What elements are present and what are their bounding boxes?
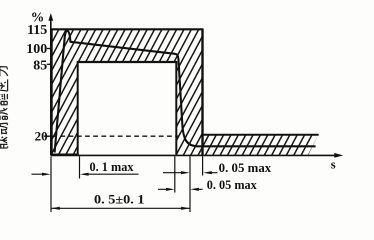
svg-text:0. 1 max: 0. 1 max — [90, 160, 135, 174]
band outline: left column bottom edge — [51, 153, 79, 155]
dimension 0.05 max lower: line — [158, 188, 203, 190]
svg-text:100: 100 — [26, 42, 47, 57]
tick 100% — [47, 48, 51, 50]
x-axis — [51, 154, 336, 156]
dimension 0.5±0.1: line — [51, 207, 190, 209]
extension line at fall start — [174, 156, 176, 192]
x-axis arrowhead — [334, 153, 343, 158]
hatched tolerance band: bottom tail — [203, 134, 319, 155]
tick 20% — [46, 135, 51, 137]
extension line at rise start — [50, 157, 52, 213]
svg-text:85: 85 — [33, 58, 47, 73]
band outline: tail top edge (20% level) — [203, 134, 319, 136]
svg-text:115: 115 — [27, 23, 47, 38]
band outline: inner right edge — [175, 62, 177, 155]
band outline: outer right edge — [201, 29, 203, 156]
char ya — [0, 79, 8, 91]
char shi — [0, 108, 8, 120]
svg-text:0. 05 max: 0. 05 max — [219, 161, 272, 175]
hatched tolerance band: pulse ring — [52, 29, 203, 156]
extension line at rise end — [79, 156, 81, 178]
y-axis — [50, 19, 52, 156]
dimension 0.05 max upper: arrows — [181, 171, 190, 174]
dimension 0.05 max upper: line — [163, 172, 218, 174]
y-axis arrowhead — [48, 13, 53, 21]
svg-text:s: s — [331, 157, 336, 171]
svg-text:0. 5±0. 1: 0. 5±0. 1 — [94, 192, 145, 207]
dimension 0.5±0.1: arrows — [51, 207, 60, 210]
dashed 20% reference line — [44, 135, 179, 137]
char li — [0, 66, 8, 76]
band outline: top edge (115% level) — [51, 28, 204, 30]
band outline: outer left edge — [51, 29, 53, 155]
char yan — [0, 94, 7, 106]
extension line at fall mid — [189, 156, 191, 212]
band outline: inner top edge (85% level) — [77, 61, 178, 63]
nominal pressure curve — [55, 31, 316, 153]
dimension 0.1 max: arrows — [42, 173, 51, 176]
tick 85% — [47, 63, 51, 65]
dimension 0.05 max lower: arrows — [166, 188, 175, 191]
char dong — [0, 123, 8, 134]
svg-text:%: % — [31, 9, 45, 24]
svg-text:20: 20 — [35, 129, 48, 144]
band outline: inner left edge — [77, 62, 79, 155]
extension line at fall end — [202, 156, 204, 175]
char mai — [0, 137, 8, 148]
svg-text:0. 05 max: 0. 05 max — [207, 178, 258, 192]
vertical axis title (pseudo CJK strokes, rotated) — [0, 66, 8, 148]
dimension 0.1 max: line — [32, 173, 139, 175]
